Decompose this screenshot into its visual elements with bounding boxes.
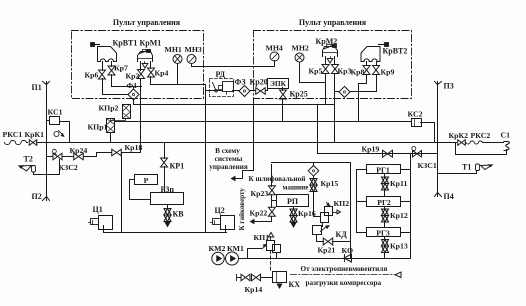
relay Р: [135, 175, 158, 185]
svg-text:Кр21: Кр21: [318, 246, 336, 255]
wire РГ left bracket: [357, 170, 367, 233]
valve Кр9: [376, 62, 378, 66]
wire feed bus L1: [134, 104, 335, 106]
svg-text:КрМ2: КрМ2: [316, 37, 338, 46]
valve Кр24: [74, 153, 79, 160]
horn Т2: [19, 166, 32, 172]
wire КПр2-КПр1 elbow: [111, 119, 126, 121]
pressure relay РП: [277, 195, 309, 207]
svg-text:Кр3: Кр3: [338, 67, 352, 76]
valve Кр5: [325, 57, 327, 65]
compressor КМ2: [212, 252, 224, 264]
wire unloader dashed: [270, 251, 272, 272]
svg-text:Т2: Т2: [24, 155, 33, 164]
wire lower left column: [121, 153, 123, 233]
wire РД to ФЗ: [233, 90, 239, 92]
wire grinder branch: [243, 99, 254, 179]
svg-text:МН4: МН4: [266, 44, 283, 53]
wire brake bus L3: [47, 142, 438, 144]
filter Ф2: [339, 86, 350, 97]
reservoir РГ1: [367, 165, 401, 174]
wire КД loop: [317, 235, 324, 242]
svg-text:ФЗ: ФЗ: [235, 78, 246, 87]
svg-text:разгрузки компрессора: разгрузки компрессора: [306, 279, 382, 287]
svg-text:системы: системы: [215, 155, 243, 163]
valve Кр2: [140, 62, 142, 71]
wire Кр23-Кр22: [271, 195, 273, 208]
svg-text:Кр16: Кр16: [298, 209, 316, 218]
valve Кр12: [384, 207, 386, 209]
wire Кр3 drop: [334, 74, 336, 92]
pipe П3: [437, 85, 439, 89]
reservoir РГ2: [367, 197, 401, 207]
svg-text:Кр6: Кр6: [85, 71, 99, 80]
wire unloader dash-dot: [291, 274, 395, 276]
svg-text:Кр24: Кр24: [70, 146, 88, 155]
valve КЗС2: [53, 153, 58, 160]
svg-text:Р3п: Р3п: [161, 185, 175, 194]
svg-text:КР1: КР1: [170, 162, 185, 171]
wire РП left: [272, 200, 277, 202]
svg-text:МН2: МН2: [292, 44, 309, 53]
svg-text:Кр23: Кр23: [251, 189, 269, 198]
svg-text:Ц2: Ц2: [215, 206, 225, 215]
wire Кр6 drop to Ф1: [103, 79, 129, 95]
wire Ф2 drop to bus: [358, 92, 360, 122]
svg-text:РГ1: РГ1: [376, 166, 390, 175]
reservoir РГ3: [367, 228, 401, 237]
wire Кр7 drop: [111, 75, 113, 87]
whistle С1: [504, 142, 509, 151]
wire bus L2: [115, 121, 412, 123]
brake valve КрВТ2: [379, 44, 387, 46]
pipe П1: [46, 85, 48, 89]
valve Кр23: [271, 165, 273, 187]
svg-text:РГ2: РГ2: [377, 198, 391, 207]
svg-text:Кр8: Кр8: [351, 68, 365, 77]
wire cross header y86: [112, 86, 142, 88]
valve Кр7: [111, 62, 113, 67]
wire РГ column right: [410, 154, 412, 259]
svg-text:П2: П2: [32, 192, 42, 201]
svg-text:П4: П4: [444, 192, 454, 201]
wire Кр8 elbow: [359, 75, 367, 92]
svg-text:РКС2: РКС2: [471, 131, 491, 140]
wire С1 drain loop: [456, 143, 507, 155]
check valve КО: [344, 254, 352, 262]
svg-text:Кр4: Кр4: [155, 69, 169, 78]
svg-text:МН3: МН3: [185, 45, 202, 54]
valve Кр14: [238, 277, 241, 279]
svg-text:Ц1: Ц1: [93, 205, 103, 214]
manometer МН3: [187, 55, 196, 64]
svg-text:Кр19: Кр19: [362, 145, 380, 154]
svg-text:КХ: КХ: [289, 280, 301, 289]
electro-pneumatic valve ЭПК: [268, 79, 289, 89]
pipe П2: [43, 197, 47, 201]
svg-text:Кр11: Кр11: [390, 179, 407, 188]
svg-text:КМ2: КМ2: [209, 244, 226, 253]
wire Кр21 to column: [333, 242, 351, 259]
svg-text:КрК2: КрК2: [449, 131, 469, 140]
time relay Р3п: [151, 193, 184, 205]
check valve КПр1: [107, 119, 115, 133]
svg-text:РГ3: РГ3: [376, 229, 390, 238]
wire Кр2 column: [140, 87, 142, 153]
pressure limiter КП1: [267, 241, 275, 251]
valve КВ: [167, 206, 169, 209]
svg-text:КВ: КВ: [173, 210, 185, 219]
svg-text:В схему: В схему: [215, 147, 240, 155]
wire Кр25 drop: [282, 99, 284, 122]
filter Ф1: [133, 87, 135, 89]
wire Кр15 header: [272, 162, 351, 164]
wire Ф2 left: [335, 91, 339, 93]
valve Кр18: [112, 149, 117, 156]
hose РКС1: [5, 141, 27, 145]
svg-text:Кр25: Кр25: [290, 90, 308, 99]
wire wrench branch: [254, 217, 272, 222]
driver brake valve КрМ2: [323, 47, 338, 57]
svg-text:РКС1: РКС1: [3, 130, 23, 139]
svg-text:КПр2: КПр2: [99, 104, 119, 113]
wire КП2 to КД: [322, 223, 324, 227]
wire Кр9 drop: [376, 75, 378, 92]
svg-text:Ф1: Ф1: [127, 81, 138, 90]
pressure reducer КД: [313, 226, 322, 235]
wire РД feed: [207, 90, 223, 92]
valve КЗС1: [413, 150, 418, 157]
svg-text:КО: КО: [342, 246, 354, 255]
cylinder Ц1: [99, 216, 113, 230]
wire КП1 stubs: [248, 248, 262, 250]
svg-text:К гайковерту: К гайковерту: [238, 188, 246, 231]
wire КЗС2 drop to Т2: [34, 160, 60, 175]
valve Кр25: [282, 88, 284, 91]
svg-text:КЗС1: КЗС1: [418, 161, 437, 170]
svg-text:Кр2: Кр2: [126, 72, 140, 81]
svg-text:Т1: Т1: [462, 163, 471, 172]
wire МН3 to МН4: [192, 66, 275, 68]
driver brake valve КрМ1: [138, 52, 153, 62]
svg-text:С1: С1: [501, 131, 511, 140]
device КС2: [412, 119, 422, 127]
svg-text:Кр15: Кр15: [321, 179, 339, 188]
valve Кр21: [323, 238, 328, 245]
wire discharge main: [239, 258, 410, 260]
valve Кр22: [268, 207, 275, 212]
svg-text:управления: управления: [209, 163, 248, 171]
svg-text:КрК1: КрК1: [25, 130, 45, 139]
svg-text:Кр20: Кр20: [250, 78, 268, 87]
svg-text:КС1: КС1: [48, 108, 63, 117]
hose РКС2: [466, 141, 483, 144]
svg-text:Кр12: Кр12: [390, 211, 408, 220]
manometer МН1: [173, 55, 182, 64]
wire Кр5 drop: [325, 74, 327, 105]
svg-text:МН1: МН1: [165, 45, 182, 54]
valve КрК2: [438, 142, 457, 144]
wire Ц2 connect: [225, 226, 227, 233]
valve КрК1: [27, 142, 28, 144]
cylinder Ц2: [221, 216, 235, 230]
valve Кр11: [384, 175, 386, 177]
wire Ф2 collector: [351, 91, 377, 93]
wire bottom bus: [104, 232, 227, 234]
wire МН2 to КрМ2 leg: [300, 82, 326, 84]
svg-text:П1: П1: [32, 83, 42, 92]
svg-text:Кр14: Кр14: [245, 285, 263, 294]
svg-text:КЗС2: КЗС2: [59, 163, 78, 172]
svg-text:Кр22: Кр22: [250, 209, 268, 218]
svg-text:Кр13: Кр13: [390, 242, 408, 251]
svg-text:Пульт управления: Пульт управления: [299, 18, 367, 27]
wire Кр4 to МН1 header: [150, 77, 152, 85]
valve Кр4: [150, 62, 152, 69]
valve Кр3: [334, 57, 336, 65]
release valve symbol: [54, 131, 59, 136]
wire Кр2 drop: [140, 79, 142, 87]
valve Кр20: [251, 90, 256, 92]
wire КР1 drop: [164, 167, 166, 193]
svg-text:КрМ1: КрМ1: [140, 39, 162, 48]
horn Т1: [476, 164, 480, 171]
svg-text:КП1: КП1: [254, 233, 270, 242]
svg-text:КМ1: КМ1: [227, 244, 244, 253]
svg-text:Кр5: Кр5: [309, 67, 323, 76]
pressure regulator РД: [210, 79, 234, 97]
wire L3 elbow to Кр19 line: [318, 143, 438, 154]
control panel box 2 (Пульт управления, right): [254, 31, 412, 99]
brake valve КрВТ1: [92, 44, 100, 46]
pressure limiter КП2: [325, 207, 333, 216]
svg-text:машине: машине: [283, 183, 309, 191]
valve Кр19: [383, 150, 388, 157]
wire Кр15/КП2 column: [350, 163, 352, 242]
filter Кр15: [313, 163, 315, 166]
wire Ц1 connect: [103, 226, 105, 233]
svg-text:КП2: КП2: [334, 199, 350, 208]
valve Кр16: [293, 207, 295, 209]
pipe П4: [435, 193, 438, 197]
svg-text:КПр1: КПр1: [88, 123, 108, 132]
wire to С1: [483, 142, 504, 144]
wire center drop x317: [317, 105, 319, 143]
wire Р to Р3п: [130, 180, 151, 200]
svg-text:КС2: КС2: [408, 110, 423, 119]
manometer МН4: [270, 52, 279, 61]
valve КР1: [164, 143, 166, 159]
wire КПр1 drop: [110, 133, 112, 143]
svg-text:Пульт управления: Пульт управления: [113, 18, 181, 27]
svg-text:Кр9: Кр9: [381, 68, 395, 77]
control panel box 1 (Пульт управления, left): [72, 31, 204, 99]
valve Кр15 lower: [313, 177, 315, 179]
svg-text:РД: РД: [216, 70, 226, 79]
device КС1: [50, 117, 60, 125]
svg-text:П3: П3: [444, 82, 454, 91]
compressor КМ1: [226, 252, 239, 265]
wire КЗС2-Кр24-Кр18 line: [47, 156, 53, 158]
manometer МН2: [295, 53, 304, 62]
valve Кр6: [102, 62, 104, 71]
svg-text:КрВТ2: КрВТ2: [383, 47, 408, 56]
filter ФЗ: [239, 86, 250, 97]
svg-text:КД: КД: [336, 230, 348, 239]
svg-text:Р: Р: [144, 176, 149, 185]
svg-text:КрВТ1: КрВТ1: [113, 39, 138, 48]
svg-text:ЭПК: ЭПК: [270, 80, 286, 88]
wire РД column: [205, 85, 207, 233]
wire КС1 drain: [60, 122, 70, 143]
svg-text:РП: РП: [287, 197, 299, 206]
svg-text:От электропневмовентиля: От электропневмовентиля: [301, 265, 388, 273]
crankcase heater КХ: [273, 272, 287, 283]
svg-text:К шлифовальной: К шлифовальной: [249, 175, 306, 183]
valve Кр13: [384, 238, 386, 240]
valve Кр8: [366, 62, 368, 66]
svg-text:Кр18: Кр18: [125, 143, 143, 152]
check valve КПр2: [123, 105, 131, 119]
